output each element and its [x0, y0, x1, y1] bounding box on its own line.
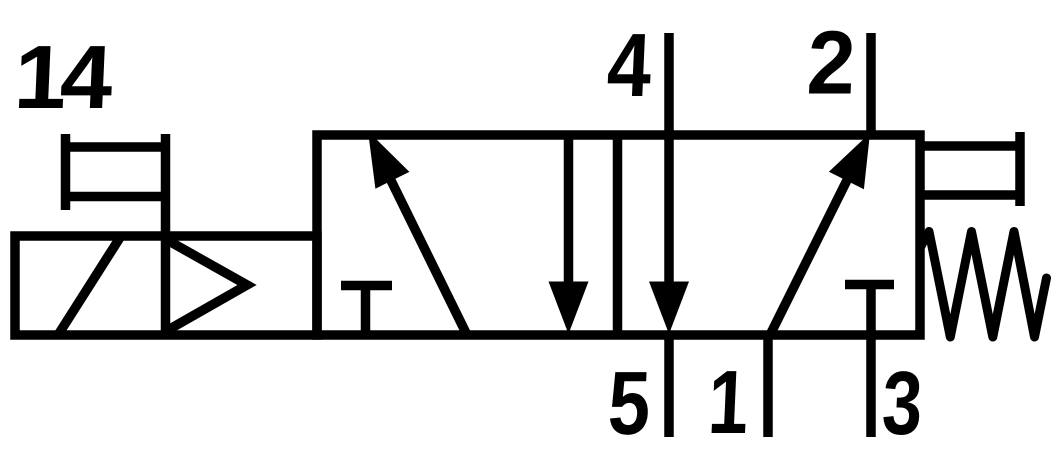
label 14 (pilot port) — [12, 27, 115, 128]
left position: flow arrow (shaft) — [376, 150, 467, 335]
valve body outline — [317, 135, 920, 335]
svg-text:4: 4 — [605, 15, 653, 116]
left position: down passage arrow head — [549, 282, 589, 335]
label 3 — [880, 353, 924, 454]
label 2 — [805, 13, 857, 114]
wire: port 4 line — [664, 33, 674, 300]
wire: port 5 line — [664, 335, 674, 437]
pilot triangle — [168, 241, 247, 331]
right position: blocked port 3 T — [845, 285, 894, 336]
solenoid diagonal stroke — [58, 236, 121, 335]
label 1 — [706, 352, 750, 453]
right position: flow arrow 1 to 2 head — [829, 133, 870, 189]
right position: 4-to-5 passage arrow head — [649, 282, 689, 335]
left position: blocked port T — [341, 286, 392, 336]
label 4 — [605, 15, 653, 116]
label 5 — [606, 353, 652, 454]
return spring — [920, 232, 1047, 338]
left position: flow arrow head — [368, 131, 409, 189]
wire: port 3 line — [866, 335, 876, 437]
wire: port 1 line — [763, 335, 773, 437]
svg-text:3: 3 — [880, 353, 924, 454]
svg-text:14: 14 — [12, 27, 115, 128]
wire: position divider — [613, 135, 623, 335]
svg-text:2: 2 — [805, 13, 857, 114]
solenoid coil box — [15, 236, 317, 335]
wire: port 2 line — [866, 33, 876, 135]
spring retainer bracket (right) — [920, 132, 1020, 206]
manual override bracket (left) — [61, 134, 170, 210]
wire: pilot divider vertical (bracket right bar down through solenoid box) — [161, 134, 171, 339]
svg-text:1: 1 — [706, 352, 750, 453]
right position: flow arrow 1 to 2 (shaft) — [770, 150, 862, 335]
left position: down passage arrow shaft — [564, 135, 574, 300]
svg-text:5: 5 — [606, 353, 652, 454]
